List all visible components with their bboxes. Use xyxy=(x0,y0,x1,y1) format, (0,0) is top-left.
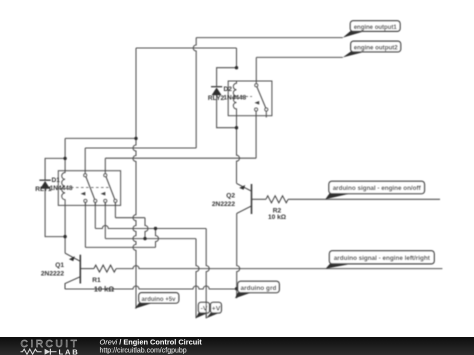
relay RLY2 pin circles xyxy=(255,84,268,111)
relay RLY1 switch2 blade xyxy=(106,177,115,199)
wire D2 branch top xyxy=(217,68,237,87)
flag arduino signal - engine left/right xyxy=(326,251,435,269)
flag arduino +5v xyxy=(135,293,179,309)
relay RLY2 actuation dashes xyxy=(241,96,252,98)
wire RLY1 pin2 drop xyxy=(94,202,96,228)
relay RLY1 pin circles xyxy=(84,174,117,203)
svg-text:+V: +V xyxy=(212,306,221,313)
wire +V vertical with hop over arduino wire xyxy=(206,229,209,319)
wire RLY2 coil bottom to Q2 collector with hop over y158 xyxy=(237,116,240,184)
junction +5v vertical / RLY1 coil top branch xyxy=(134,137,137,140)
wire Q2 emitter down with hop, to arduino grd xyxy=(237,213,240,298)
wire RLY1 coil-top riser horizontal y138 xyxy=(65,137,136,139)
svg-text:arduino +5v: arduino +5v xyxy=(142,296,176,303)
wire RLY2 net2: horizontal y158 to RLY1 switch2 common xyxy=(105,157,256,159)
svg-text:-V: -V xyxy=(201,306,208,313)
relay RLY2 coil xyxy=(233,81,236,116)
svg-text:http://circuitlab.com/cfgpubp: http://circuitlab.com/cfgpubp xyxy=(100,348,187,355)
svg-text:engine output1: engine output1 xyxy=(354,24,397,31)
wire RLY1 coil bottom to Q1 collector xyxy=(64,205,66,253)
transistor Q2 arrow xyxy=(239,185,245,190)
wire to RLY1 switch1 common pin xyxy=(84,148,86,174)
wire RLY1 pin1 horizontal y247 xyxy=(85,246,155,248)
wire engine output1 net: horizontal to flag xyxy=(196,37,343,39)
relay RLY1 switch1 blade xyxy=(86,177,95,199)
wire RLY2 net2: from bottom-left contact down xyxy=(255,111,257,158)
wire +V passing over -V box xyxy=(205,302,207,318)
svg-text:RLY2: RLY2 xyxy=(208,95,225,102)
wire vertical A (+5v) with six hops xyxy=(133,48,136,309)
svg-text:R1: R1 xyxy=(92,277,101,284)
wire RLY1 switch2 common riser xyxy=(104,158,106,174)
junction ground rail / Q2 emitter / arduino grd xyxy=(235,287,238,290)
voltage source +V flag xyxy=(206,302,221,318)
wire -V vertical with hop over arduino wire xyxy=(196,239,199,319)
wire RLY1 pin4 horizontal y217 xyxy=(115,217,145,219)
wire pin4 riser to y238 with hop over y228 xyxy=(145,218,148,239)
wire ground rail with hops over A, -V, +V xyxy=(65,286,237,289)
svg-text:arduino signal - engine left/r: arduino signal - engine left/right xyxy=(334,255,431,262)
svg-text:D2: D2 xyxy=(224,86,233,93)
svg-text:1N4448: 1N4448 xyxy=(223,94,246,101)
transistor Q2 xyxy=(237,183,266,214)
relay RLY1 box xyxy=(58,171,120,206)
wire engine output1 net: horizontal to RLY1 switch1 common xyxy=(85,147,196,149)
relay RLY1 pin stubs xyxy=(85,202,115,205)
svg-text:10 kΩ: 10 kΩ xyxy=(94,284,114,293)
svg-text:2N2222: 2N2222 xyxy=(41,271,64,278)
svg-text:arduino signal - engine on/off: arduino signal - engine on/off xyxy=(333,185,422,192)
svg-text:Q2: Q2 xyxy=(226,193,235,200)
junction RLY2 coil bottom / D2 cathode net xyxy=(235,126,238,129)
svg-text:engine output2: engine output2 xyxy=(354,44,398,51)
svg-text:D1: D1 xyxy=(52,177,61,184)
svg-text:Q1: Q1 xyxy=(55,262,64,269)
svg-text:10 kΩ: 10 kΩ xyxy=(268,214,287,221)
wire D1 branch bottom xyxy=(45,189,65,237)
svg-text:1N4448: 1N4448 xyxy=(50,185,73,192)
wire +5v rail top: y48 horizontal xyxy=(136,47,237,49)
flag engine output2 xyxy=(343,41,401,57)
diode D1 xyxy=(39,180,50,189)
wire engine output2 net: horizontal to flag xyxy=(256,56,343,58)
resistor R1 xyxy=(94,265,116,272)
svg-text:LAB: LAB xyxy=(59,348,80,355)
svg-text:arduino grd: arduino grd xyxy=(241,285,277,292)
CircuitLab logo resistor squiggle xyxy=(21,349,42,354)
wire y238 to -V drop xyxy=(105,238,196,240)
flag arduino signal - engine on/off xyxy=(325,181,424,199)
junction RLY1 coil bottom / D1 branch xyxy=(63,235,66,238)
footer bar xyxy=(0,337,474,355)
relay RLY1 switch1 arrow xyxy=(81,192,86,196)
flag arduino grd xyxy=(235,281,279,298)
wire engine output1 net: vertical with hop over y48 wire xyxy=(193,38,196,148)
relay RLY1 coil xyxy=(62,171,65,206)
transistor Q1 arrow xyxy=(69,256,75,261)
wire D1 branch top xyxy=(45,158,65,180)
wire y228 to +V drop with hop over pin3 riser xyxy=(95,226,206,229)
wire Q2 base to flag on/off xyxy=(288,198,440,200)
flag engine output1 xyxy=(343,21,400,38)
wire D2 branch bottom xyxy=(217,95,237,128)
diode D2 xyxy=(211,87,222,96)
junction pin1/pin2 net xyxy=(154,227,157,230)
wire RLY1 pin4 drop xyxy=(114,202,116,217)
wire engine output2 net: vertical from RLY2 common xyxy=(255,57,257,84)
relay RLY2 switch blade xyxy=(257,87,266,108)
relay RLY1 switch2 arrow xyxy=(101,192,106,196)
voltage source -V flag xyxy=(196,302,210,318)
wire pin1 riser to y228 with hop over y238 xyxy=(156,229,159,248)
relay RLY2 unconnected pin stub xyxy=(265,111,267,118)
wire Q1 base to flag left/right with hop over vertical A xyxy=(116,266,442,269)
wire RLY1 coil-top riser vertical x65 xyxy=(64,138,66,170)
junction RLY1 coil top / D1 branch xyxy=(63,157,66,160)
relay RLY1 actuation dashes xyxy=(71,187,110,189)
resistor R2 xyxy=(266,196,288,203)
junction RLY2 coil top / D2 anode net xyxy=(235,66,238,69)
CircuitLab logo diode xyxy=(45,349,51,355)
relay RLY2 switch arrow xyxy=(255,101,260,105)
svg-text:Orevi / Engien Control Circuit: Orevi / Engien Control Circuit xyxy=(100,338,203,347)
transistor Q1 xyxy=(65,253,94,289)
wire RLY1 pin3 drop xyxy=(104,202,106,238)
relay RLY2 box xyxy=(228,81,272,116)
wire RLY2 coil top drop xyxy=(236,48,238,68)
wire RLY1 pin1 drop xyxy=(84,202,86,247)
junction pin3/pin4 net xyxy=(143,237,146,240)
svg-text:2N2222: 2N2222 xyxy=(212,201,235,208)
